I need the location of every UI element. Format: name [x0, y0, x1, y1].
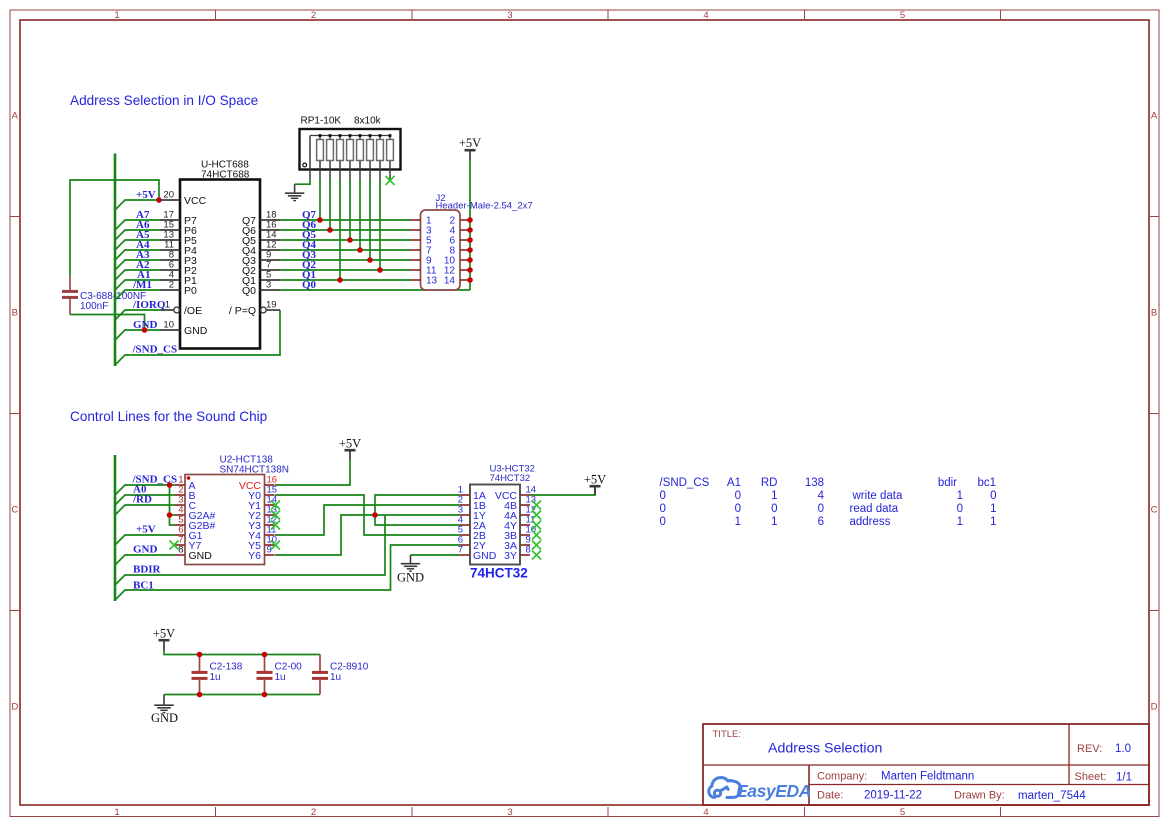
junction dots rails — [197, 652, 268, 698]
wire Q2 — [280, 269, 411, 271]
svg-text:14: 14 — [444, 276, 456, 287]
svg-text:1u: 1u — [210, 672, 221, 683]
svg-text:1: 1 — [990, 503, 996, 515]
net RD wire — [115, 505, 175, 515]
svg-text:8: 8 — [526, 545, 531, 556]
svg-text:Address Selection in I/O Space: Address Selection in I/O Space — [70, 93, 258, 108]
junction dots pullups — [317, 217, 383, 283]
capacitor C2-00 — [257, 655, 303, 695]
U1 pin 8 P3 — [160, 250, 197, 267]
svg-text:+5V: +5V — [136, 189, 156, 201]
U2 pin 6 G1 — [175, 525, 203, 542]
svg-text:C: C — [11, 505, 18, 516]
U2 pin 5 G2B — [175, 515, 216, 532]
svg-text:5: 5 — [900, 807, 905, 818]
svg-text:1: 1 — [771, 516, 777, 528]
U3 pin 7 GND — [458, 545, 497, 562]
svg-text:7: 7 — [458, 545, 463, 556]
svg-text:0: 0 — [660, 516, 666, 528]
svg-text:0: 0 — [660, 503, 666, 515]
net +5V wire G1 — [115, 535, 175, 545]
svg-text:74HCT32: 74HCT32 — [490, 473, 531, 484]
U3 pin 2 1B — [458, 495, 486, 512]
U2 pin 16 VCC — [239, 475, 277, 492]
U1 pin 15 P6 — [160, 220, 197, 237]
U3 pin 12 4A — [504, 505, 536, 522]
svg-text:D: D — [1151, 702, 1158, 713]
wire Q1 — [280, 279, 411, 281]
svg-text:+5V: +5V — [459, 136, 481, 150]
svg-text:4: 4 — [818, 490, 825, 502]
svg-text:0: 0 — [735, 503, 741, 515]
net A4 wire — [115, 250, 160, 260]
net GND wire U2 — [115, 555, 175, 565]
power flag +5V (C2) — [153, 627, 175, 651]
svg-text:/RD: /RD — [132, 494, 152, 506]
U1 pin 19 P=Q — [229, 300, 280, 317]
U2 pin 13 Y2 — [248, 505, 277, 522]
svg-text:10: 10 — [163, 320, 174, 331]
svg-text:EasyEDA: EasyEDA — [736, 781, 811, 801]
wire Q6 — [280, 229, 411, 231]
op U1 74HCT688 body — [180, 180, 260, 349]
U1 pin 14 Q5 — [242, 230, 280, 247]
U2 pin 9 Y6 — [248, 545, 274, 562]
svg-text:2: 2 — [169, 280, 174, 291]
svg-text:1u: 1u — [275, 672, 286, 683]
svg-text:100nF: 100nF — [80, 301, 108, 312]
svg-text:bdir: bdir — [938, 477, 957, 489]
net SND_CS wire — [115, 310, 280, 365]
wire Q0 — [280, 289, 470, 291]
svg-text:+5V: +5V — [584, 473, 606, 487]
net A5 wire — [115, 240, 160, 250]
svg-text:GND: GND — [397, 571, 424, 585]
junction tie — [372, 512, 378, 518]
svg-text:20: 20 — [163, 190, 174, 201]
U1 pin 11 P4 — [160, 240, 197, 257]
U1 pin 1 /OE — [160, 300, 202, 317]
svg-text:3: 3 — [507, 10, 512, 21]
svg-text:19: 19 — [266, 300, 277, 311]
wire G2 tie vertical — [170, 485, 176, 525]
svg-text:3: 3 — [507, 807, 512, 818]
svg-text:Company:: Company: — [817, 771, 867, 783]
svg-text:9: 9 — [267, 545, 272, 556]
svg-text:RD: RD — [761, 477, 778, 489]
capacitor C3 — [62, 276, 146, 315]
ground (C2) — [151, 695, 178, 726]
U2 origin dot — [187, 476, 191, 480]
wire Q7 — [280, 219, 411, 221]
svg-text:3: 3 — [266, 280, 271, 291]
svg-text:Marten Feldtmann: Marten Feldtmann — [881, 771, 974, 783]
U3 pin 1 1A — [458, 485, 486, 502]
svg-text:1.0: 1.0 — [1115, 743, 1131, 755]
svg-text:5: 5 — [900, 10, 905, 21]
U1 pin 20 VCC — [160, 190, 207, 207]
svg-text:13: 13 — [426, 276, 438, 287]
svg-text:bc1: bc1 — [977, 477, 996, 489]
svg-text:A: A — [12, 111, 19, 122]
U1 pin 12 Q4 — [242, 240, 280, 257]
U1 pin 18 Q7 — [242, 210, 280, 227]
U3 pin 9 3A — [504, 535, 531, 552]
wire Y0 to 2B — [275, 495, 460, 535]
svg-text:1u: 1u — [330, 672, 341, 683]
U1 pin 4 P1 — [160, 270, 197, 287]
svg-text:1: 1 — [957, 516, 963, 528]
svg-text:Y6: Y6 — [248, 550, 261, 562]
U2 pin 12 Y3 — [248, 515, 277, 532]
svg-text:A: A — [1151, 111, 1158, 122]
U1 pin 6 P2 — [160, 260, 197, 277]
svg-text:GND: GND — [133, 544, 158, 556]
svg-text:A1: A1 — [727, 477, 741, 489]
wire Q4 — [280, 249, 411, 251]
U1 pin 13 P5 — [160, 230, 197, 247]
U3 pin 4 2A — [458, 515, 486, 532]
U3 pin 3 1Y — [458, 505, 486, 522]
svg-text:GND: GND — [189, 550, 213, 562]
svg-text:/SND_CS: /SND_CS — [660, 477, 710, 489]
svg-text:4: 4 — [703, 10, 708, 21]
svg-text:74HCT688: 74HCT688 — [201, 170, 250, 181]
U2 pin 1 A — [175, 475, 196, 492]
no-connect X U2 right pins — [271, 501, 280, 550]
junction U2 pin4 — [167, 512, 173, 518]
net A0 wire — [115, 495, 175, 505]
svg-text:0: 0 — [957, 503, 963, 515]
op U2 HCT138 body — [185, 475, 265, 565]
pullup wires — [320, 180, 380, 280]
junction U2 pin1 — [167, 482, 173, 488]
EasyEDA logo — [709, 778, 811, 801]
svg-text:0: 0 — [660, 490, 666, 502]
power flag +5V (U3) — [584, 473, 606, 496]
truth table text — [660, 477, 997, 528]
wire 1A-2A tie — [375, 495, 460, 525]
U3 pin 6 2Y — [458, 535, 486, 552]
net A6 wire — [115, 230, 160, 240]
U3 pin 10 3B — [504, 525, 536, 542]
U2 pin 11 Y4 — [248, 525, 276, 542]
net +5V wire at VCC — [115, 200, 160, 210]
J2 pins right — [460, 220, 470, 280]
net A7 wire — [115, 220, 160, 230]
svg-text:Header-Male-2.54_2x7: Header-Male-2.54_2x7 — [436, 201, 533, 212]
svg-text:Address Selection: Address Selection — [768, 741, 882, 757]
svg-text:SN74HCT138N: SN74HCT138N — [220, 465, 289, 476]
svg-text:GND: GND — [473, 550, 497, 562]
wire Q3 — [280, 259, 411, 261]
wire Y4 to 1B — [275, 505, 460, 535]
U2 pin 14 Y1 — [248, 495, 277, 512]
net SND_CS wire U2 — [115, 485, 175, 495]
svg-text:2: 2 — [311, 10, 316, 21]
svg-text:B: B — [12, 308, 18, 319]
svg-text:2019-11-22: 2019-11-22 — [864, 790, 922, 802]
svg-text:1: 1 — [990, 516, 996, 528]
svg-text:Date:: Date: — [817, 790, 843, 802]
net A2 wire — [115, 270, 160, 280]
net GND wire — [115, 330, 160, 340]
svg-text:1/1: 1/1 — [1116, 772, 1132, 784]
power flag +5V (J2) — [459, 136, 481, 160]
svg-text:1: 1 — [957, 490, 963, 502]
U1 pin 5 Q1 — [242, 270, 280, 287]
svg-text:REV:: REV: — [1077, 743, 1102, 755]
capacitor C2-138 — [192, 655, 243, 695]
U3 pin 13 4B — [504, 495, 536, 512]
svg-text:Drawn By:: Drawn By: — [954, 790, 1005, 802]
svg-text:C2-138: C2-138 — [210, 662, 243, 673]
net IORQ wire — [115, 310, 160, 320]
net BC1 wire — [115, 545, 460, 600]
net M1 wire — [115, 290, 160, 300]
wire bus2 vertical — [114, 455, 117, 601]
U1 pin 9 Q3 — [242, 250, 280, 267]
U2 pin 15 Y0 — [248, 485, 277, 502]
J2 pins left — [411, 220, 421, 280]
svg-text:8: 8 — [178, 545, 183, 556]
svg-text:+5V: +5V — [153, 627, 175, 641]
RP1 pin1 gnd wire — [295, 180, 310, 184]
U2 pin 3 C — [175, 495, 197, 512]
no-connect X U2 pin7 — [170, 541, 179, 550]
wire bottom rail — [164, 694, 320, 696]
junction VCC — [156, 197, 162, 203]
no-connect X RP1 pin9 — [386, 176, 395, 185]
svg-text:marten_7544: marten_7544 — [1018, 790, 1086, 802]
svg-text:Control Lines for the Sound Ch: Control Lines for the Sound Chip — [70, 409, 267, 424]
svg-text:0: 0 — [818, 503, 824, 515]
junction GND pin — [142, 327, 148, 333]
U2 pin 10 Y5 — [248, 535, 277, 552]
wire Q5 — [280, 239, 411, 241]
wire Y6 to 1Y — [275, 515, 460, 555]
svg-text:138: 138 — [805, 477, 824, 489]
junction dots J2 right — [467, 217, 473, 283]
svg-text:+5V: +5V — [339, 437, 361, 451]
svg-text:0: 0 — [771, 503, 777, 515]
wire VCC14 to +5V — [530, 486, 595, 495]
wire C3 top to VCC — [70, 180, 159, 276]
svg-text:TITLE:: TITLE: — [713, 729, 742, 740]
svg-text:VCC: VCC — [184, 195, 207, 207]
U1 pin 17 P7 — [160, 210, 197, 227]
U2 pin 7 Y7 — [175, 535, 202, 552]
svg-text:+5V: +5V — [136, 524, 156, 536]
net BDIR wire — [115, 515, 385, 585]
svg-text:1: 1 — [114, 807, 119, 818]
RP1 resistors R1-R8 — [317, 134, 394, 180]
J2 pin numbers — [426, 216, 455, 287]
svg-text:74HCT32: 74HCT32 — [470, 566, 528, 581]
svg-text:/SND_CS: /SND_CS — [132, 344, 178, 356]
op U3 HCT32 body — [470, 485, 520, 565]
svg-text:C2-8910: C2-8910 — [330, 662, 369, 673]
svg-text:GND: GND — [184, 325, 208, 337]
svg-text:Q0: Q0 — [242, 285, 256, 297]
svg-text:address: address — [850, 516, 891, 528]
U3 pin 11 4Y — [504, 515, 535, 532]
svg-text:P0: P0 — [184, 285, 197, 297]
svg-text:Sheet:: Sheet: — [1075, 771, 1107, 783]
wire +5V vertical J2 — [469, 160, 471, 290]
U1 pin 16 Q6 — [242, 220, 280, 237]
no-connect X U3 right pins — [532, 501, 541, 560]
svg-text:6: 6 — [818, 516, 824, 528]
svg-text:1: 1 — [165, 300, 170, 311]
svg-text:2: 2 — [311, 807, 316, 818]
power flag +5V (U2) — [339, 437, 361, 461]
svg-text:B: B — [1151, 308, 1157, 319]
svg-text:8x10k: 8x10k — [354, 116, 382, 127]
net A1 wire — [115, 280, 160, 290]
connector J2 — [421, 193, 461, 290]
svg-text:GND: GND — [151, 711, 178, 725]
svg-text:/OE: /OE — [184, 305, 202, 317]
svg-text:1: 1 — [771, 490, 777, 502]
U1 pin 10 GND — [160, 320, 208, 337]
capacitor C2-8910 — [312, 655, 369, 695]
svg-text:write data: write data — [852, 490, 903, 502]
svg-text:4: 4 — [703, 807, 708, 818]
U2 pin 4 G2A — [175, 505, 216, 522]
U3 pin 5 2B — [458, 525, 486, 542]
svg-text:/M1: /M1 — [132, 279, 152, 291]
resistor pack RP1 — [300, 116, 401, 181]
wire C3 bottom to GND pin — [70, 315, 145, 331]
U1 pin 3 Q0 — [242, 280, 280, 297]
svg-text:1: 1 — [735, 516, 741, 528]
svg-text:RP1-10K: RP1-10K — [301, 116, 342, 127]
wire VCC16 to +5V — [275, 460, 350, 485]
wire top rail — [164, 651, 320, 655]
svg-text:0: 0 — [735, 490, 741, 502]
U2 pin 8 GND — [175, 545, 212, 562]
svg-text:C2-00: C2-00 — [275, 662, 303, 673]
svg-text:Q0: Q0 — [302, 279, 317, 291]
svg-text:/ P=Q: / P=Q — [229, 305, 256, 317]
title block box — [703, 724, 1149, 805]
ground (RP1) — [285, 184, 304, 200]
svg-text:read data: read data — [850, 503, 899, 515]
U2 pin 2 B — [175, 485, 196, 502]
svg-text:1: 1 — [114, 10, 119, 21]
title block texts — [713, 729, 1133, 802]
svg-text:BC1: BC1 — [133, 580, 154, 592]
wire G2A stub — [170, 514, 176, 516]
wire bus1 vertical — [114, 154, 117, 367]
U1 pin 2 P0 — [160, 280, 197, 297]
svg-text:0: 0 — [990, 490, 996, 502]
wire U3 GND — [411, 554, 461, 556]
svg-text:BDIR: BDIR — [133, 564, 162, 576]
svg-text:D: D — [11, 702, 18, 713]
U1 pin 7 Q2 — [242, 260, 280, 277]
svg-text:C: C — [1151, 505, 1158, 516]
net A3 wire — [115, 260, 160, 270]
svg-text:3Y: 3Y — [504, 550, 517, 562]
ground (U3) — [397, 555, 424, 585]
U3 pin 8 3Y — [504, 545, 531, 562]
U3 pin 14 VCC — [495, 485, 536, 502]
